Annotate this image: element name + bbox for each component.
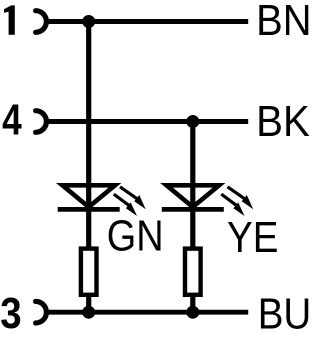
- junction node BN: [82, 15, 95, 28]
- pin 1 connector arc: [36, 11, 47, 33]
- LED triangle: [167, 185, 220, 207]
- wire BK horizontal: [44, 119, 248, 124]
- pin 1 label: [4, 5, 15, 34]
- LED emission arrow 2: [221, 194, 244, 216]
- LED emission arrow 1: [120, 187, 146, 210]
- LED emission arrow 1: [228, 187, 254, 210]
- pin 4 connector arc: [36, 111, 47, 133]
- svg-text:BU: BU: [258, 290, 312, 337]
- LED triangle: [62, 185, 115, 207]
- pin 3 connector arc: [36, 301, 47, 323]
- wire vertical branch A: [86, 22, 91, 313]
- junction node BU right: [186, 306, 199, 319]
- wire BU horizontal: [44, 310, 248, 315]
- svg-text:4: 4: [2, 96, 22, 145]
- LED YE (D2): [162, 185, 253, 216]
- wire vertical branch B: [190, 122, 195, 313]
- wire BN horizontal: [44, 19, 248, 24]
- LED emission arrow 2: [114, 194, 137, 216]
- LED cathode bar: [162, 207, 224, 212]
- junction node BU left: [82, 306, 95, 319]
- svg-text:GN: GN: [107, 212, 164, 261]
- resistor R2: [185, 249, 201, 295]
- svg-text:3: 3: [0, 289, 21, 337]
- svg-text:BN: BN: [256, 0, 311, 45]
- LED cathode bar: [58, 207, 120, 212]
- junction node BK: [186, 115, 199, 128]
- svg-text:YE: YE: [227, 213, 278, 262]
- resistor R1: [81, 249, 97, 295]
- svg-text:BK: BK: [256, 97, 310, 146]
- LED GN (D1): [58, 185, 146, 216]
